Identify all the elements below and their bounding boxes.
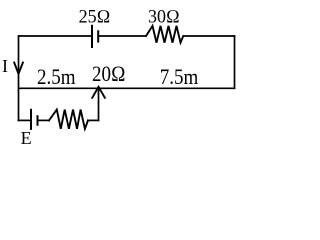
wire top-left horizontal (top rail, left of 25Ω cell) <box>19 35 93 37</box>
wire jockey riser vertical <box>98 89 100 121</box>
cell 25Ω short plate <box>97 31 99 41</box>
cell E long plate <box>30 110 32 129</box>
label I (current) <box>2 59 8 73</box>
wire left vertical (carries current I) <box>18 36 20 120</box>
wire top-right horizontal (after 30Ω resistor) <box>183 35 234 37</box>
cell E short plate <box>37 116 39 125</box>
label 2.5m (length of left wire section) <box>37 70 76 86</box>
arrowhead for current I (pointing down) <box>14 63 23 74</box>
cell 25Ω long plate <box>91 26 93 47</box>
wire top-middle horizontal (between 25Ω cell and 30Ω resistor) <box>98 35 146 37</box>
series resistor zigzag (bottom branch) <box>49 110 88 129</box>
label 25Ω (value of top cell element) <box>79 9 111 24</box>
wire right vertical <box>234 36 236 88</box>
label 20Ω (resistance at tap point) <box>92 67 126 83</box>
label 30Ω (value of top resistor) <box>148 9 180 24</box>
arrowhead jockey contact (pointing up at tap point on wire) <box>92 87 105 98</box>
label E (emf of driver cell) <box>21 131 32 145</box>
wire bottom horizontal (left, from left vertical to cell E) <box>19 119 32 121</box>
wire middle horizontal (potentiometer wire) <box>19 87 235 89</box>
wire bottom horizontal (between cell E and series resistor) <box>38 119 50 121</box>
resistor 30Ω zigzag <box>146 26 183 43</box>
label 7.5m (length of right wire section) <box>160 70 199 86</box>
wire bottom horizontal (from resistor to jockey riser) <box>88 119 99 121</box>
